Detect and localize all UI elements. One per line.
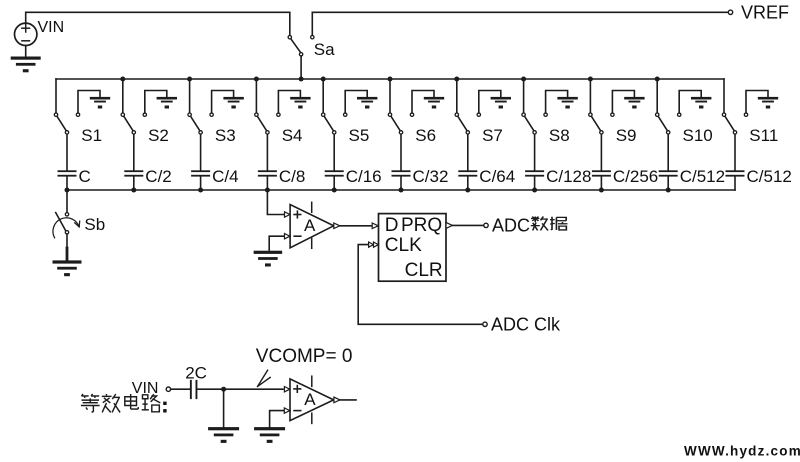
svg-text:S11: S11	[749, 126, 778, 145]
node bottom bus / C/4	[198, 188, 203, 193]
wire switch S6 to capacitor	[400, 135, 402, 171]
wire Q output to terminal	[446, 222, 483, 228]
ground (Sb)	[53, 260, 82, 276]
label VCOMP= 0	[256, 346, 353, 367]
switch S3	[188, 113, 202, 134]
wire capacitor C/8 to bottom bus	[266, 177, 268, 190]
wire switch S4 to capacitor	[266, 135, 268, 171]
svg-text:A: A	[304, 216, 316, 235]
terminal ADC data	[484, 223, 488, 227]
wire capacitor C/32 to bottom bus	[400, 177, 402, 190]
svg-text:2C: 2C	[185, 364, 207, 383]
top plate bus	[56, 78, 724, 80]
ground (equivalent node)	[208, 427, 239, 443]
svg-text:Sa: Sa	[314, 40, 335, 59]
switch S4	[255, 113, 269, 134]
node bottom bus / C/16	[332, 188, 337, 193]
node bottom bus / C/512	[666, 188, 671, 193]
wire capacitor C/16 to bottom bus	[333, 177, 335, 190]
svg-text:WWW.hydz.com: WWW.hydz.com	[684, 443, 800, 458]
arrow VCOMP to wire	[258, 370, 271, 386]
capacitor C (S1 branch)	[58, 170, 77, 176]
ground contact of S6	[410, 91, 444, 117]
wire top bus to switch S2	[122, 79, 124, 113]
node top bus / S2	[120, 77, 125, 82]
wire - input to ground (equivalent)	[270, 411, 290, 427]
svg-text:A: A	[304, 390, 316, 409]
wire capacitor C/128 to bottom bus	[534, 177, 536, 190]
ground (comparator - input)	[254, 251, 283, 267]
node bottom bus / C	[65, 188, 70, 193]
label ADC Clk	[491, 315, 561, 335]
arrowhead + input	[285, 212, 290, 217]
wire capacitor C/512 to bottom bus	[667, 177, 669, 190]
svg-text:C/512: C/512	[680, 167, 725, 186]
wire top bus to switch S8	[523, 79, 525, 113]
switch S6	[388, 113, 402, 134]
wire top bus to switch S9	[589, 79, 591, 113]
wire top bus to switch S3	[189, 79, 191, 113]
arrowhead - input (equivalent)	[284, 408, 289, 413]
wire VIN to switch Sa	[26, 12, 290, 35]
ground contact of S1	[76, 91, 110, 117]
svg-text:S9: S9	[616, 126, 637, 145]
svg-text:CLK: CLK	[385, 235, 422, 256]
label S3	[215, 126, 236, 145]
switch S2	[121, 113, 135, 134]
ground contact of S9	[611, 91, 645, 117]
node bottom bus / C/64	[465, 188, 470, 193]
watermark WWW.hydz.com	[684, 443, 800, 458]
label S2	[148, 126, 169, 145]
svg-text:C/2: C/2	[145, 167, 171, 186]
label S9	[616, 126, 637, 145]
capacitor C/512 (S10 branch)	[659, 170, 678, 176]
svg-text:S5: S5	[349, 126, 370, 145]
wire ADC clock to CLK pin	[358, 245, 482, 325]
wire switch S11 to capacitor	[734, 135, 736, 171]
wire switch S1 to capacitor	[66, 135, 68, 171]
label S6	[415, 126, 436, 145]
wire top bus to switch S10	[656, 79, 658, 113]
svg-text:CLR: CLR	[405, 260, 443, 281]
capacitor C/2 (S2 branch)	[124, 170, 143, 176]
wire switch S7 to capacitor	[467, 135, 469, 171]
wire comparator - input to ground	[269, 236, 290, 250]
capacitor C/512 (S11 branch)	[726, 170, 745, 176]
wire capacitor C to bottom bus	[66, 177, 68, 190]
svg-text:S3: S3	[215, 126, 236, 145]
switch S1	[54, 113, 68, 134]
svg-text:VIN: VIN	[38, 19, 65, 36]
label VIN (top)	[38, 19, 65, 36]
ground contact of S8	[544, 91, 578, 117]
ground (equivalent - input)	[254, 427, 285, 443]
svg-text:ADC Clk: ADC Clk	[491, 315, 561, 335]
svg-text:Sb: Sb	[84, 215, 105, 234]
label S10	[683, 126, 713, 145]
capacitor C/256 (S9 branch)	[592, 170, 611, 176]
wire switch S3 to capacitor	[200, 135, 202, 171]
wire switch S5 to capacitor	[333, 135, 335, 171]
label 2C	[185, 364, 207, 383]
wire switch S10 to capacitor	[667, 135, 669, 171]
node (top plate, equivalent)	[221, 387, 226, 392]
node top bus / S3	[187, 77, 192, 82]
svg-text:C/512: C/512	[747, 167, 792, 186]
wire capacitor C/2 to bottom bus	[133, 177, 135, 190]
label S8	[549, 126, 570, 145]
wire 2C to comparator + input	[197, 388, 283, 390]
switch Sa	[288, 36, 314, 80]
label S11	[749, 126, 778, 145]
ground contact of S2	[143, 91, 177, 117]
wire capacitor C/256 to bottom bus	[600, 177, 602, 190]
op-amp A (equivalent)	[290, 376, 334, 423]
ground contact of S4	[277, 91, 311, 117]
capacitor C/64 (S7 branch)	[458, 170, 477, 176]
svg-text:PRQ: PRQ	[401, 215, 442, 236]
arrowhead - input	[285, 234, 290, 239]
wire capacitor C/512 to bottom bus	[734, 177, 736, 190]
capacitor C/16 (S5 branch)	[325, 170, 344, 176]
node top bus / S5	[321, 77, 326, 82]
label C/32	[413, 167, 449, 186]
label Sa	[314, 40, 335, 59]
label VIN (equivalent)	[132, 380, 159, 397]
pin label PR Q	[401, 215, 442, 236]
label S4	[282, 126, 303, 145]
arrowhead + input (equivalent)	[284, 387, 289, 392]
ground contact of S10	[678, 91, 712, 117]
wire VIN terminal to 2C	[171, 388, 190, 390]
voltage source VIN	[15, 23, 37, 45]
wire Sb to ground	[66, 234, 68, 260]
node top bus / S4	[254, 77, 259, 82]
label S7	[482, 126, 503, 145]
svg-text:S1: S1	[81, 126, 102, 145]
ground contact of S5	[344, 91, 378, 117]
ground contact of S7	[477, 91, 511, 117]
wire bottom bus to switch Sb	[66, 190, 68, 213]
wire top bus to switch S11	[723, 79, 725, 113]
capacitor C/8 (S4 branch)	[258, 170, 277, 176]
wire capacitor C/64 to bottom bus	[467, 177, 469, 190]
node bottom bus / C/32	[399, 188, 404, 193]
svg-text:S8: S8	[549, 126, 570, 145]
pin label CLK	[385, 235, 422, 256]
label Sb	[84, 215, 105, 234]
switch Sb	[53, 213, 80, 238]
svg-text:VREF: VREF	[741, 2, 789, 22]
ground contact of S11	[744, 91, 778, 117]
node Sa/top bus junction	[299, 77, 304, 82]
switch S10	[656, 113, 670, 134]
svg-text:C/64: C/64	[479, 167, 515, 186]
svg-text:S4: S4	[282, 126, 303, 145]
wire node to ground	[223, 389, 225, 427]
wire switch S9 to capacitor	[600, 135, 602, 171]
node bottom bus / C/128	[532, 188, 537, 193]
wire switch S2 to capacitor	[133, 135, 135, 171]
label S1	[81, 126, 102, 145]
wire VREF rail	[312, 12, 728, 35]
wire top bus to switch S6	[389, 79, 391, 113]
svg-text:S2: S2	[148, 126, 169, 145]
svg-text:VIN: VIN	[132, 380, 159, 397]
capacitor C/32 (S6 branch)	[392, 170, 411, 176]
node bottom bus / C/256	[599, 188, 604, 193]
wire C/8 node to comparator + input	[267, 190, 283, 215]
capacitor C/4 (S3 branch)	[191, 170, 210, 176]
label C/16	[346, 167, 382, 186]
label C/128	[546, 167, 591, 186]
label C/2	[145, 167, 171, 186]
label S5	[349, 126, 370, 145]
capacitor C/128 (S8 branch)	[525, 170, 544, 176]
svg-text:ADC: ADC	[492, 216, 530, 236]
wire capacitor C/4 to bottom bus	[200, 177, 202, 190]
label 等效电路: (equivalent circuit)	[81, 394, 167, 413]
label 数据 (data)	[531, 217, 568, 231]
label A (equivalent)	[304, 390, 316, 409]
wire top bus to switch S1	[55, 79, 57, 113]
label ADC(data)	[492, 216, 530, 236]
label C/256	[613, 167, 658, 186]
svg-text:C/32: C/32	[413, 167, 449, 186]
wire top bus to switch S7	[456, 79, 458, 113]
wire comparator output (equivalent)	[334, 397, 356, 403]
switch S9	[589, 113, 603, 134]
svg-text:C: C	[79, 167, 91, 186]
svg-text:S10: S10	[683, 126, 713, 145]
svg-text:C/128: C/128	[546, 167, 591, 186]
terminal VREF	[728, 10, 732, 14]
label C/512	[680, 167, 725, 186]
D flip-flop U1	[379, 214, 447, 282]
switch S11	[722, 113, 736, 134]
svg-text:D: D	[385, 215, 399, 236]
label C	[79, 167, 91, 186]
pin label D	[385, 215, 399, 236]
label C/512	[747, 167, 792, 186]
switch S7	[455, 113, 469, 134]
node top bus / S8	[521, 77, 526, 82]
ground (VIN source)	[11, 46, 41, 73]
svg-text:C/8: C/8	[279, 167, 305, 186]
svg-text:C/256: C/256	[613, 167, 658, 186]
node top bus / S10	[655, 77, 660, 82]
label C/8	[279, 167, 305, 186]
svg-text:VCOMP= 0: VCOMP= 0	[256, 346, 353, 367]
wire top bus to switch S4	[255, 79, 257, 113]
pin label CLR	[405, 260, 443, 281]
bottom plate bus	[67, 189, 735, 191]
capacitor 2C	[190, 380, 198, 399]
terminal ADC Clk	[483, 322, 487, 326]
svg-text:S7: S7	[482, 126, 503, 145]
node top bus / S9	[588, 77, 593, 82]
switch S8	[522, 113, 536, 134]
wire switch S8 to capacitor	[534, 135, 536, 171]
label C/64	[479, 167, 515, 186]
node top bus / S7	[454, 77, 459, 82]
node top bus / S6	[388, 77, 393, 82]
ground contact of S3	[210, 91, 244, 117]
wire comparator output to D flip-flop	[334, 223, 378, 229]
svg-text:C/4: C/4	[212, 167, 238, 186]
node bottom bus / C/2	[131, 188, 136, 193]
label C/4	[212, 167, 238, 186]
node bottom bus / C/8	[265, 188, 270, 193]
label A (comparator)	[304, 216, 316, 235]
svg-text:C/16: C/16	[346, 167, 382, 186]
wire top bus to switch S5	[322, 79, 324, 113]
clock input arrowheads	[369, 242, 379, 247]
svg-text:S6: S6	[415, 126, 436, 145]
op-amp A (comparator)	[290, 202, 334, 248]
terminal VIN (equivalent)	[166, 387, 170, 391]
switch S5	[322, 113, 336, 134]
label VREF	[741, 2, 789, 22]
